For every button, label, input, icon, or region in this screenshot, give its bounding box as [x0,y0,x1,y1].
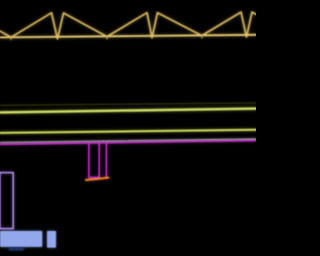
orange base line [86,178,109,180]
truss bottom chord [0,35,256,38]
white level line [0,139,256,143]
magenta hanging U (columns A-B) [89,143,99,178]
roof truss top zigzag outline [0,12,256,39]
second yellow-green line [0,130,256,133]
bright yellow-green beam line [0,109,256,113]
faint olive level line [0,103,256,105]
truss valley tick 2 [106,36,108,38]
truss valley tick 1 [10,37,12,39]
truss valley tick 3 [201,35,203,37]
periwinkle bar large [0,231,42,247]
violet door rectangle [0,173,13,229]
navy footing block [9,247,24,251]
periwinkle bar small [47,231,56,248]
magenta floor line [0,140,256,144]
magenta column C [105,143,107,178]
